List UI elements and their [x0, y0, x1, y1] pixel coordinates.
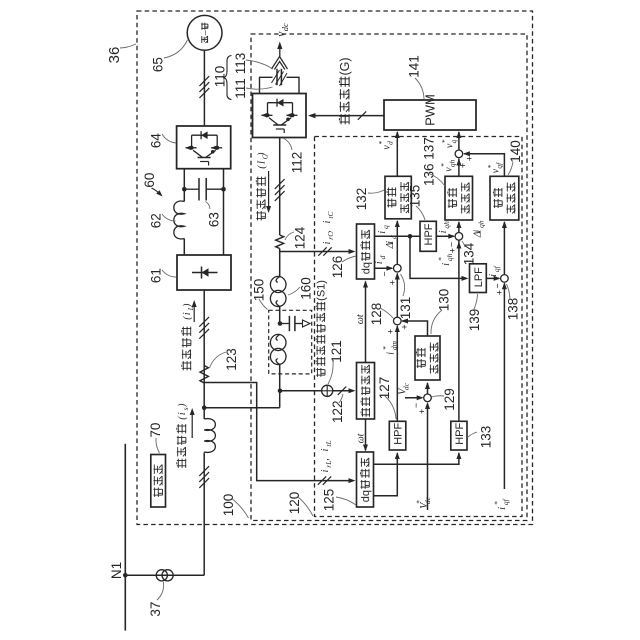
svg-text:111: 111 — [233, 78, 248, 99]
svg-text:140: 140 — [508, 140, 523, 163]
svg-text:dc: dc — [423, 496, 432, 504]
svg-text:138: 138 — [505, 298, 520, 321]
svg-text:*: * — [436, 257, 445, 261]
sum128 output to sum131 — [396, 274, 398, 318]
svg-text:qf: qf — [495, 162, 504, 169]
sensor 122 symbol — [322, 385, 333, 396]
label 36 — [106, 47, 123, 64]
svg-text:124: 124 — [292, 226, 307, 249]
N1 bus — [124, 444, 126, 631]
svg-text:36: 36 — [106, 47, 123, 64]
svg-text:ωt: ωt — [355, 314, 366, 324]
svg-text:60: 60 — [142, 173, 157, 188]
svg-text:−: − — [447, 242, 457, 247]
svg-text:qh: qh — [448, 159, 457, 167]
svg-text:i: i — [322, 241, 333, 244]
svg-text:113: 113 — [233, 53, 248, 75]
svg-text:+: + — [458, 163, 468, 168]
summing junction 134 — [455, 233, 463, 241]
capacitor C63 — [184, 188, 199, 190]
svg-text:−: − — [380, 271, 390, 276]
summing junction v*q — [455, 150, 463, 158]
svg-text:+: + — [417, 409, 427, 414]
svg-text:i: i — [441, 263, 452, 266]
V*_dc input — [427, 404, 429, 511]
svg-text:): ) — [182, 303, 193, 308]
omega-t down to dq125 — [365, 419, 367, 451]
current controller box 136/137 — [445, 176, 473, 220]
label 122 — [330, 400, 345, 423]
svg-text:tL: tL — [324, 440, 333, 446]
resistor 123 — [200, 366, 208, 384]
wire motor to inverter64 — [203, 50, 205, 126]
svg-text:129: 129 — [442, 388, 457, 411]
coil in box150 — [270, 334, 286, 350]
svg-text:122: 122 — [330, 400, 345, 423]
svg-text:q: q — [381, 225, 390, 229]
dashed box 150 (LC filter) — [269, 310, 312, 374]
svg-text:131: 131 — [398, 297, 413, 320]
v*_d arrow into PWM — [396, 132, 398, 176]
svg-text:139: 139 — [467, 309, 482, 332]
svg-text:65: 65 — [150, 57, 165, 72]
ticks load line — [199, 317, 209, 327]
zero-cross sensor branch — [280, 390, 322, 392]
label 123 — [224, 348, 239, 371]
svg-text:qh: qh — [442, 221, 451, 229]
svg-text:i: i — [472, 230, 483, 233]
summing junction 138 — [501, 275, 509, 283]
branch to dq126 (iC sense) — [280, 251, 353, 253]
DC cap rect 110 — [260, 77, 273, 93]
svg-text:−: − — [493, 283, 503, 288]
V_dc input — [405, 397, 422, 399]
load current label — [182, 327, 191, 371]
svg-text:+: + — [400, 324, 410, 329]
svg-text:LPF: LPF — [473, 267, 485, 287]
main line below rectifier — [203, 290, 205, 419]
system current label — [177, 424, 186, 468]
svg-text:i: i — [177, 412, 188, 415]
v*_q arrow into PWM — [458, 132, 460, 150]
junction A dot — [202, 405, 207, 410]
sum134 output to current ctrl 136/137 — [458, 222, 460, 233]
ticks filter — [275, 179, 285, 189]
svg-text:,: , — [322, 230, 333, 233]
svg-text:(G): (G) — [338, 57, 352, 75]
inductor L62 — [174, 201, 185, 239]
svg-text:123: 123 — [224, 348, 239, 371]
svg-text:+: + — [388, 280, 398, 285]
label 65 — [150, 57, 165, 72]
svg-text:i: i — [320, 469, 331, 472]
PWM box 141 — [384, 100, 476, 130]
sum131 output into 132 — [396, 221, 398, 264]
svg-text:N1: N1 — [109, 562, 124, 579]
svg-text:*: * — [486, 165, 495, 169]
LPF box 139 — [470, 264, 487, 293]
phase calculator box — [357, 363, 375, 420]
i*_qh from HPF133 — [458, 240, 460, 421]
vdc label — [275, 23, 290, 37]
wire node to junction A — [204, 407, 280, 409]
svg-text:qh: qh — [477, 220, 486, 228]
voltage controller 130 output — [402, 321, 428, 336]
svg-text:(S1): (S1) — [316, 280, 328, 301]
dq converter box 125 — [357, 452, 374, 507]
filter branch wire from 112 down — [279, 138, 281, 236]
svg-text:*: * — [381, 346, 390, 350]
transformer 37 — [156, 570, 167, 581]
load current sense wire — [204, 383, 352, 481]
vdc sense chevrons — [272, 57, 288, 70]
svg-text:127: 127 — [377, 377, 392, 400]
HPF box 133 — [451, 421, 467, 450]
label 37 — [148, 602, 163, 617]
svg-text:130: 130 — [436, 289, 451, 312]
i_q branch to LPF — [410, 236, 466, 278]
svg-text:120: 120 — [287, 492, 302, 515]
svg-text:70: 70 — [148, 423, 163, 438]
DC link rails — [183, 169, 185, 202]
svg-text:134: 134 — [461, 242, 476, 265]
v*_qf wire from ctrl140 — [464, 154, 504, 177]
label N1 — [109, 562, 124, 579]
capacitors 111/113 plates — [276, 69, 278, 85]
svg-text:HPF: HPF — [393, 423, 405, 445]
labels 110 113 111 with brace — [212, 66, 227, 88]
HPF box 135 — [420, 221, 436, 251]
current controller box 140 — [490, 176, 519, 220]
svg-text:*: * — [492, 501, 501, 505]
svg-text:126: 126 — [330, 256, 345, 279]
svg-text:*: * — [377, 141, 386, 145]
svg-text:i: i — [385, 352, 396, 355]
svg-text:dq: dq — [361, 262, 373, 274]
svg-text:63: 63 — [206, 212, 221, 227]
svg-text:,: , — [320, 458, 331, 461]
svg-text:qh: qh — [445, 253, 454, 261]
label 62 — [148, 213, 163, 228]
label 100 — [221, 494, 236, 517]
svg-text:tC: tC — [326, 212, 335, 219]
svg-text:): ) — [177, 403, 188, 408]
compensation current label — [256, 177, 265, 221]
resistor 124 — [276, 235, 284, 249]
svg-text:I: I — [256, 160, 267, 165]
svg-text:i: i — [182, 312, 193, 315]
svg-text:i: i — [497, 507, 508, 510]
current controller box 132 — [385, 176, 411, 219]
svg-text:62: 62 — [148, 213, 163, 228]
omega-t up to dq126 — [365, 282, 367, 363]
wire coil160 to cap node — [279, 306, 281, 324]
wire to N1 via transformer 37 — [125, 574, 204, 576]
svg-text:61: 61 — [148, 268, 163, 283]
svg-text:HPF: HPF — [454, 423, 466, 445]
i_d wire dq126 to sum131 — [375, 267, 393, 269]
vdc arrow — [279, 47, 281, 57]
summing junction 131 — [394, 264, 402, 272]
svg-text:i: i — [322, 220, 333, 223]
gate signal arrow PWM->112 — [310, 115, 384, 117]
cap branch in box150 — [278, 321, 283, 326]
i_qh wire to sum134 — [436, 235, 454, 237]
svg-text:132: 132 — [354, 188, 369, 211]
svg-text:i: i — [438, 230, 449, 233]
wire box150 to node122 — [279, 364, 281, 408]
svg-text:121: 121 — [329, 340, 344, 363]
IGBT box 112 — [253, 94, 307, 138]
rectifier box 61 — [177, 255, 231, 290]
label 64 — [148, 133, 163, 149]
ticks system line — [199, 466, 209, 476]
HPF box 127 — [389, 421, 406, 450]
zero-cross signal label — [316, 280, 328, 377]
summing junction 128 — [394, 317, 402, 325]
svg-text:141: 141 — [406, 55, 421, 78]
3-phase ticks — [200, 76, 210, 86]
svg-text:136 137: 136 137 — [421, 137, 436, 186]
HPF127 output to sum128 — [396, 326, 398, 421]
svg-text:i: i — [488, 274, 499, 277]
svg-text:d: d — [386, 141, 395, 145]
svg-text:*: * — [439, 163, 448, 167]
svg-text:i: i — [377, 231, 388, 234]
svg-text:+: + — [465, 156, 475, 161]
svg-text:d: d — [389, 235, 398, 239]
svg-text:133: 133 — [478, 426, 493, 449]
svg-text:PWM: PWM — [423, 94, 438, 126]
svg-text:i: i — [374, 261, 385, 264]
svg-text:dc: dc — [280, 23, 290, 31]
svg-text:135: 135 — [407, 185, 422, 208]
svg-text:100: 100 — [221, 494, 236, 517]
dq125 outputs to HPF127/133 — [374, 453, 459, 464]
dashed box 36 (power supply system) — [137, 11, 533, 525]
summing junction 129 — [424, 394, 432, 402]
label 61 — [148, 268, 163, 283]
svg-text:+: + — [495, 290, 505, 295]
svg-text:−: − — [411, 403, 421, 408]
sum129 output into 130 — [427, 383, 429, 394]
wire resistor to coil160 — [279, 249, 281, 278]
i_qf to sum138 — [486, 277, 499, 279]
dashed box 100 (active filter) — [251, 34, 527, 521]
svg-text:): ) — [256, 152, 267, 157]
svg-text:–: – — [200, 30, 210, 35]
dq converter box 126 — [357, 224, 375, 279]
svg-text:150: 150 — [251, 279, 266, 302]
svg-text:125: 125 — [321, 489, 336, 512]
svg-text:dc: dc — [402, 382, 411, 390]
svg-text:d: d — [378, 255, 387, 259]
svg-text:+: + — [386, 329, 396, 334]
label 121 — [329, 340, 344, 363]
svg-text:112: 112 — [289, 152, 304, 174]
label 120 — [287, 492, 302, 515]
system current coil — [204, 419, 215, 453]
svg-text:q: q — [449, 139, 458, 143]
voltage controller box 130 — [415, 336, 440, 380]
svg-text:+: + — [448, 248, 458, 253]
svg-text:i: i — [320, 448, 331, 451]
v*_qh wire to sum — [458, 159, 460, 177]
svg-text:dq: dq — [360, 490, 372, 502]
arrow to phase calc — [333, 390, 353, 392]
label 60 arrow — [142, 173, 157, 188]
svg-text:128: 128 — [369, 303, 384, 326]
svg-text:rL: rL — [324, 461, 333, 468]
ctrl140 input from sum138 — [503, 222, 505, 275]
i*_qf input — [503, 284, 505, 490]
svg-text:i: i — [385, 241, 396, 244]
svg-text:*: * — [414, 500, 423, 504]
svg-text:qf: qf — [501, 498, 510, 505]
gate signal label — [338, 57, 352, 124]
motor M65 circle — [187, 15, 222, 50]
svg-text:qf: qf — [492, 265, 501, 272]
svg-text:160: 160 — [298, 277, 313, 300]
i_q wire to HPF135 — [375, 235, 421, 237]
svg-text:HPF: HPF — [423, 223, 435, 245]
inverter box 64 — [177, 126, 231, 169]
svg-text:37: 37 — [148, 602, 163, 617]
communication unit 70 — [151, 455, 166, 508]
svg-text:64: 64 — [148, 133, 163, 149]
label 63 — [206, 212, 221, 227]
svg-text:ωt: ωt — [355, 433, 366, 443]
coil 160 — [270, 276, 286, 292]
label 112 — [289, 152, 304, 174]
svg-text:*: * — [440, 139, 449, 143]
dashed box 120 (controller) — [315, 137, 523, 517]
